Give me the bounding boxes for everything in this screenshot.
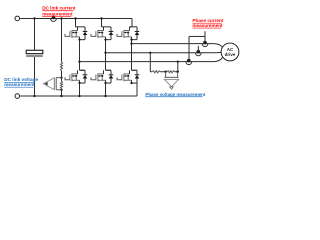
leg 2 phase column bbox=[104, 40, 106, 71]
gate lead Q1L bbox=[65, 77, 70, 80]
wire top jog leg 2 low bbox=[106, 69, 112, 71]
DC voltage divider branch wire bbox=[60, 17, 62, 61]
resistor R1 (divider top) bbox=[60, 62, 62, 71]
wire phase divider horizontal bbox=[150, 71, 179, 73]
node source junction Q1L bbox=[78, 80, 85, 84]
wire top jog leg 3 low bbox=[132, 69, 138, 71]
leg 1 low riser jog bbox=[78, 69, 86, 71]
svg-text:measurement: measurement bbox=[192, 23, 223, 28]
node tap on phase U bbox=[177, 61, 179, 72]
node source junction Q3H bbox=[130, 37, 137, 41]
diode D2L bbox=[109, 70, 114, 83]
resistor R3 (phase divider) bbox=[152, 71, 161, 73]
op-amp U1 (DC link voltage iso amp) bbox=[43, 78, 61, 90]
svg-text:measurement: measurement bbox=[42, 12, 73, 17]
sensor DC link current bbox=[51, 16, 57, 22]
leg 3 phase column bbox=[130, 40, 132, 71]
label phase voltage measurement bbox=[145, 92, 205, 97]
phase wire V (middle, leg2) bbox=[106, 51, 222, 53]
transistor Q1L bbox=[70, 70, 80, 81]
wire top jog leg 1 low bbox=[80, 69, 86, 71]
capacitor C1 (DC link) bbox=[26, 50, 43, 57]
diode D1L bbox=[83, 70, 88, 83]
leg 2 low riser jog bbox=[104, 69, 112, 71]
leg 1 bottom descent bbox=[78, 83, 80, 97]
DC+ input terminal bbox=[15, 16, 20, 21]
wire node to rail bbox=[60, 78, 62, 98]
wire R1 to node bbox=[60, 71, 62, 79]
transistor Q3H bbox=[122, 27, 132, 38]
gate lead Q3L bbox=[117, 77, 122, 80]
phase wire U (bottom, leg1) bbox=[80, 58, 223, 62]
leg 1 phase column bbox=[78, 40, 80, 71]
AC drive motor M1 bbox=[221, 43, 239, 61]
gate lead Q3H bbox=[117, 34, 122, 37]
leader phase current label to sensors bbox=[189, 31, 205, 60]
diode D3H bbox=[135, 27, 140, 40]
leg 2 bottom descent bbox=[104, 83, 106, 97]
node source junction Q3L bbox=[130, 80, 137, 84]
DC- input terminal bbox=[15, 94, 20, 99]
svg-text:drive: drive bbox=[225, 52, 236, 57]
leg 2 top riser bbox=[100, 17, 103, 27]
gate lead Q2H bbox=[91, 34, 96, 37]
diode D2H bbox=[109, 27, 114, 40]
node source junction Q1H bbox=[78, 37, 85, 41]
svg-text:DC link current: DC link current bbox=[42, 6, 76, 11]
svg-text:measurement: measurement bbox=[4, 82, 35, 87]
sensor phase current V bbox=[195, 50, 201, 56]
svg-text:Phase voltage measurement: Phase voltage measurement bbox=[145, 92, 205, 97]
transistor Q2H bbox=[96, 27, 106, 38]
top DC+ rail bbox=[20, 17, 132, 19]
op-amp U2 (phase voltage iso amp) bbox=[164, 72, 178, 90]
leg 1 top riser bbox=[74, 17, 77, 27]
capacitor branch wire bottom bbox=[33, 57, 35, 97]
wire top jog leg 3 high bbox=[130, 26, 138, 28]
transistor Q3L bbox=[122, 70, 132, 81]
gate lead Q1H bbox=[65, 34, 70, 37]
label phase current measurement bbox=[192, 18, 223, 28]
diode D3L bbox=[135, 70, 140, 83]
resistor R4 (phase sense) bbox=[167, 71, 175, 73]
transistor Q1H bbox=[70, 27, 80, 38]
wire top jog leg 2 high bbox=[104, 26, 112, 28]
transistor Q2L bbox=[96, 70, 106, 81]
label DC link voltage measurement bbox=[4, 77, 38, 87]
gate lead Q2L bbox=[91, 77, 96, 80]
leg 3 bottom descent bbox=[136, 83, 138, 96]
leg 3 top riser bbox=[130, 18, 133, 26]
node source junction Q2H bbox=[104, 37, 111, 41]
label DC link current measurement bbox=[42, 6, 76, 17]
capacitor branch wire top bbox=[33, 17, 35, 50]
diode D1H bbox=[83, 27, 88, 40]
phase wire W (top, leg3) bbox=[132, 44, 223, 48]
wire top jog leg 1 high bbox=[78, 26, 86, 28]
leg 3 low riser jog bbox=[130, 69, 138, 71]
node tap on phase V bbox=[149, 52, 151, 72]
resistor R2 (divider bottom) bbox=[60, 81, 62, 89]
sensor phase current W bbox=[202, 41, 208, 47]
sensor phase current U bbox=[186, 59, 192, 65]
node source junction Q2L bbox=[104, 80, 111, 84]
bottom DC- rail bbox=[20, 95, 137, 97]
